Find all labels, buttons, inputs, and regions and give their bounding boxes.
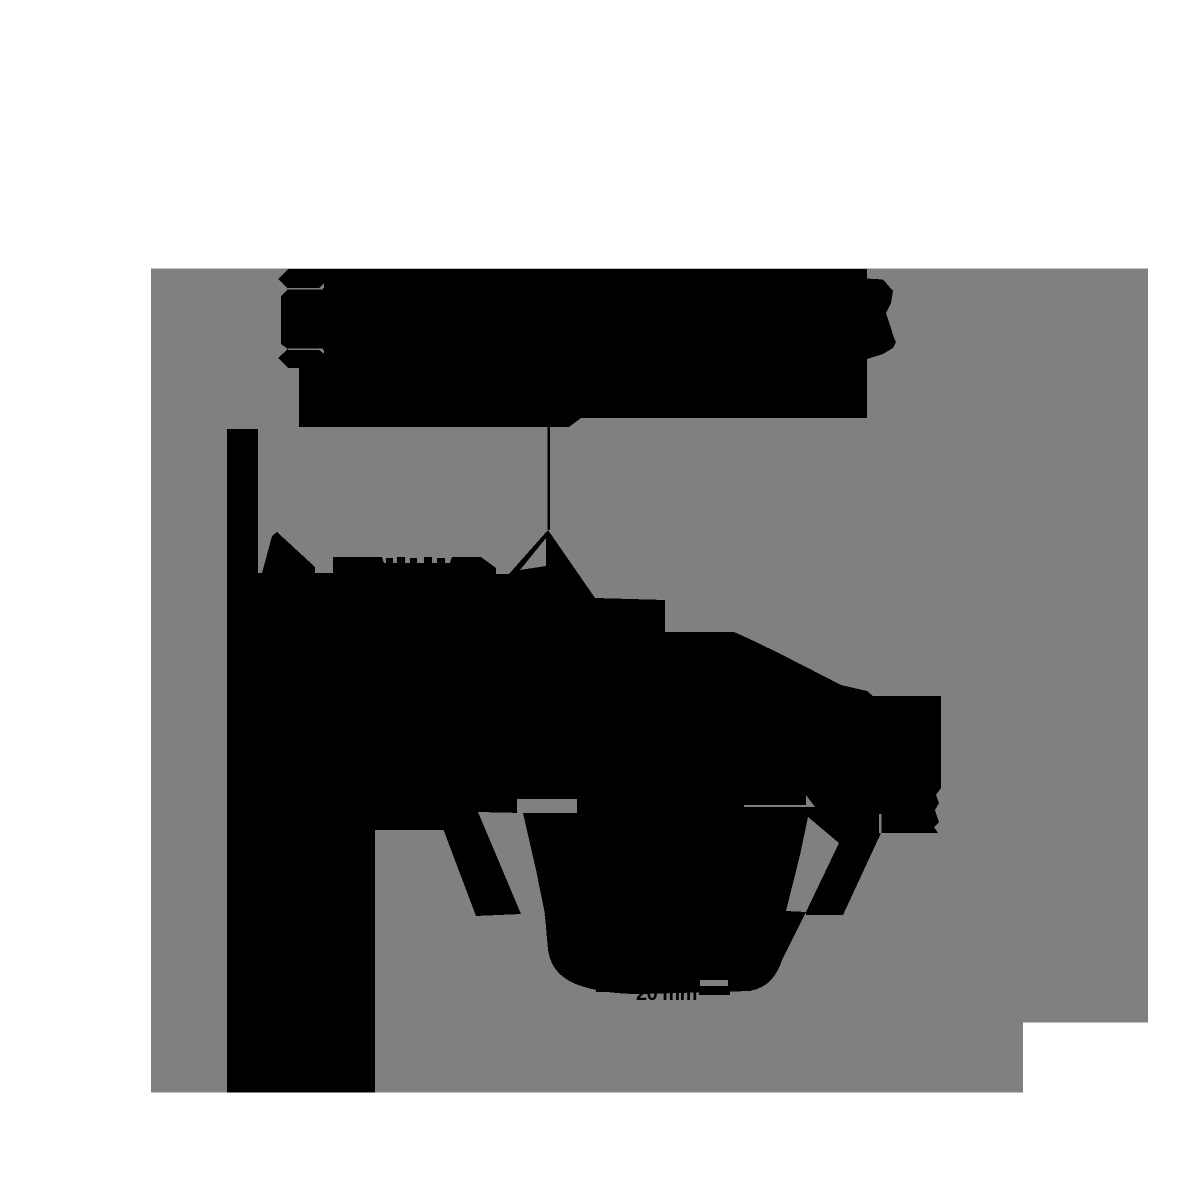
svg-text:20 mm: 20 mm [636,983,697,1005]
